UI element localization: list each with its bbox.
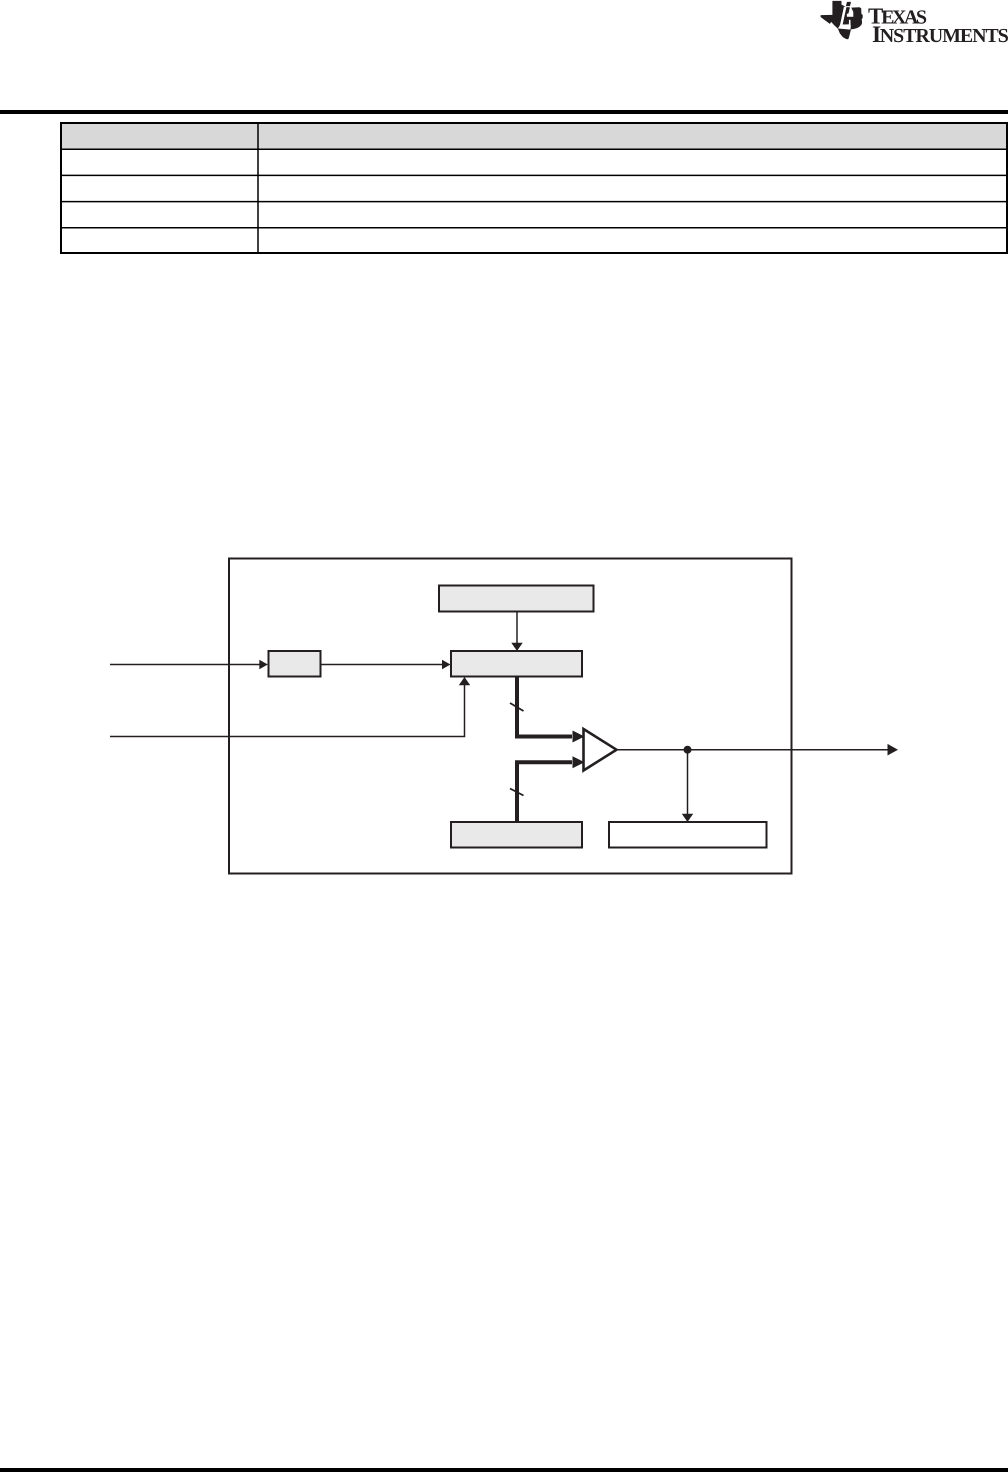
- small prescale box: [269, 651, 321, 677]
- wire: node to flag box: [687, 750, 689, 814]
- junction node: [684, 746, 692, 754]
- bus: middle box to comparator: [517, 677, 572, 737]
- bottom horizontal rule: [0, 1468, 1008, 1472]
- table: [60, 122, 1008, 254]
- output flag box: [609, 822, 767, 848]
- comparator triangle: [584, 729, 617, 771]
- wire: small box to middle box: [321, 664, 444, 666]
- middle register box: [451, 651, 582, 677]
- output wire: [617, 749, 889, 751]
- input wire 2: [110, 685, 465, 737]
- TEXAS wordmark: [868, 9, 926, 24]
- TI logo (top right): [818, 0, 1008, 50]
- INSTRUMENTS wordmark: [873, 27, 1008, 43]
- outer figure box: [229, 559, 792, 874]
- bus: bottom box to comparator: [517, 762, 572, 822]
- arrow: top box to middle box: [516, 612, 518, 644]
- Texas-state "ti" bug: [821, 1, 863, 40]
- bottom register box: [451, 822, 582, 848]
- block diagram: [0, 540, 1008, 900]
- bus slash upper: [510, 703, 524, 711]
- input wire 1: [110, 664, 260, 666]
- top horizontal rule: [0, 110, 1008, 114]
- top register box: [439, 586, 594, 612]
- bus slash lower: [510, 789, 524, 796]
